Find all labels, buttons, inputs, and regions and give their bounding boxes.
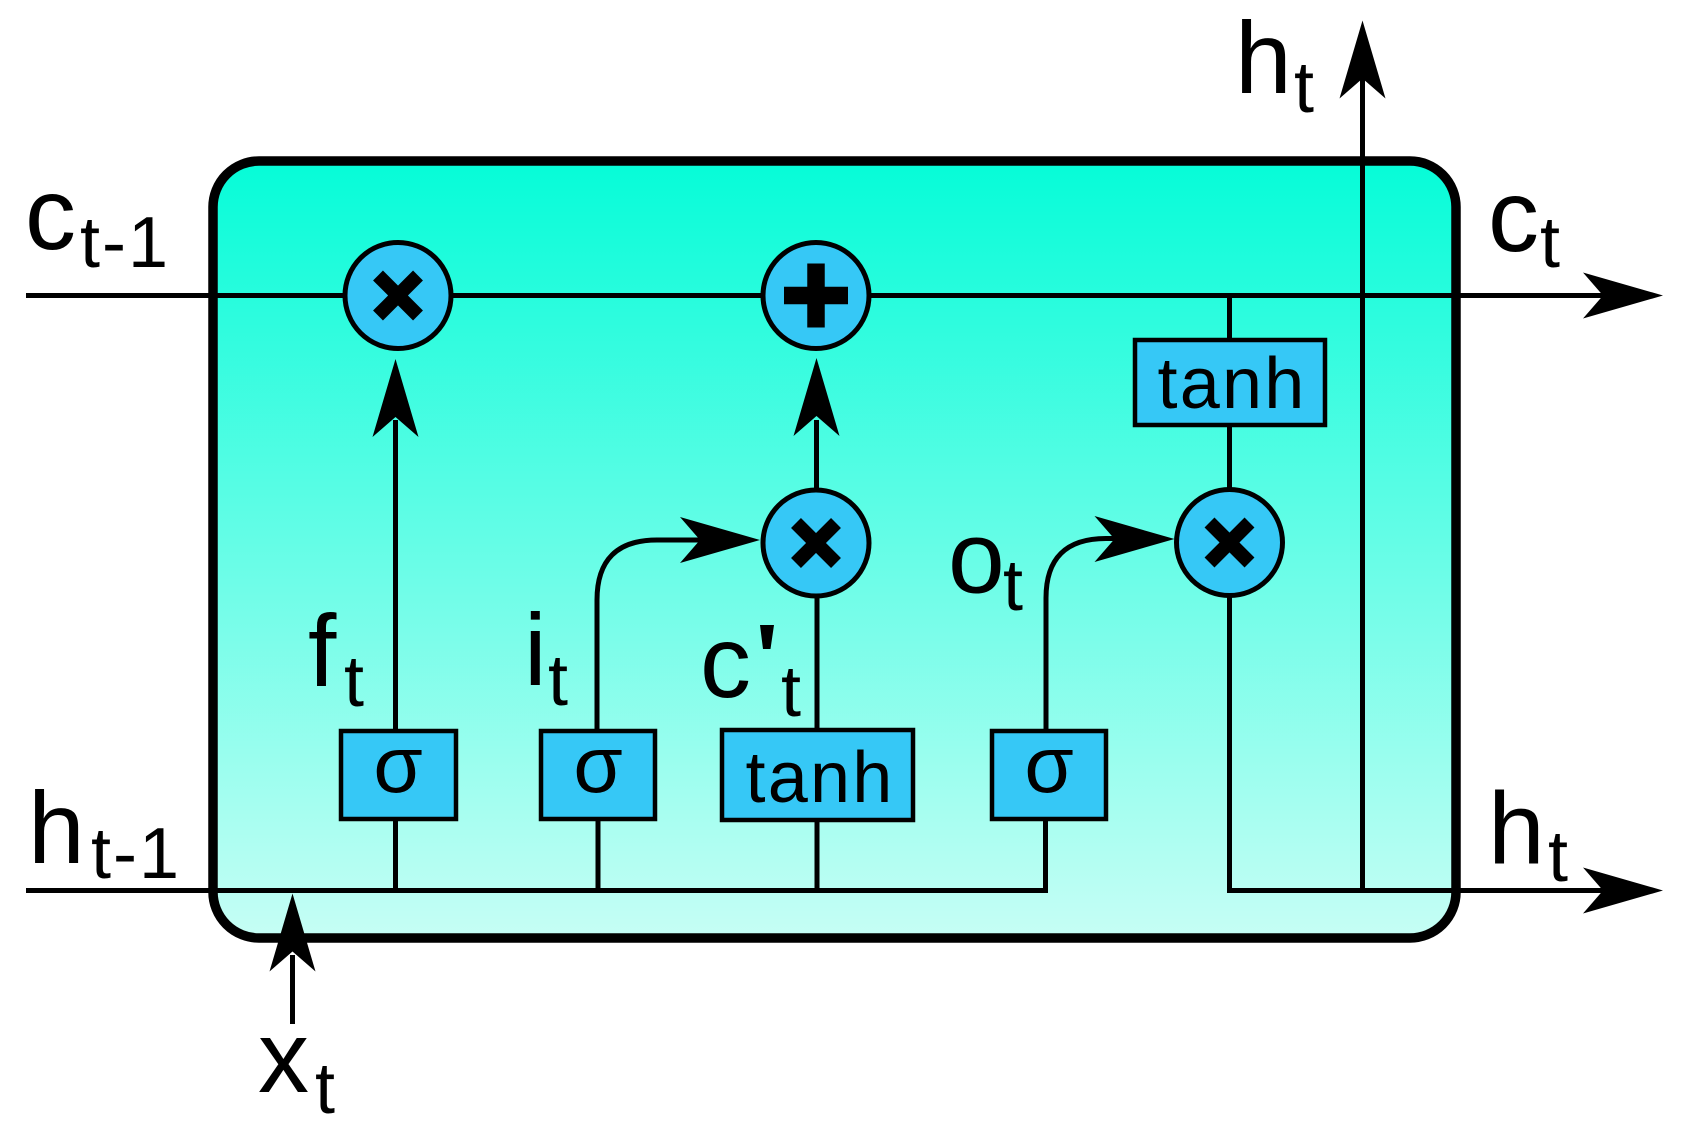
svg-text:c: c — [700, 605, 751, 719]
label o_t — [948, 501, 1023, 627]
operator circle: output gate multiply (x) right — [1177, 490, 1283, 596]
arrowhead c_t output — [1583, 273, 1663, 319]
wire: middle x-circle up to plus circle — [814, 420, 819, 488]
svg-text:i: i — [524, 593, 547, 707]
arrowhead into right x-circle left — [1095, 516, 1175, 562]
arrowhead into middle x-circle left — [680, 517, 760, 563]
svg-text:t: t — [781, 652, 801, 732]
svg-text:t-1: t-1 — [91, 814, 181, 894]
svg-text:h: h — [1488, 772, 1545, 886]
label h_t (top) — [1235, 1, 1314, 128]
wire: output gate o_t curve from sigma3 to right x-circle — [1046, 539, 1120, 732]
label h_t (right) — [1488, 772, 1568, 898]
arrowhead h_t right output — [1583, 868, 1663, 914]
svg-text:t-1: t-1 — [80, 203, 170, 283]
wire: hidden state input rail h (horizontal bottom, left to sigma3 riser) — [26, 818, 1046, 891]
svg-text:o: o — [948, 501, 1005, 615]
wire: h_t branch going up through cell to top — [1360, 75, 1365, 891]
svg-text:tanh: tanh — [1158, 344, 1307, 424]
svg-text:t: t — [1003, 546, 1023, 626]
label c'_t — [700, 605, 801, 732]
svg-text:f: f — [308, 594, 337, 708]
arrowhead into plus circle — [794, 358, 840, 436]
label i_t — [524, 593, 568, 721]
arrowhead into first x-circle — [373, 359, 419, 437]
svg-text:c: c — [25, 157, 76, 271]
svg-text:t: t — [1540, 203, 1560, 283]
wire: top tanh box down to right x-circle — [1227, 425, 1232, 490]
LSTM cell body (rounded rectangle) — [213, 161, 1456, 938]
svg-text:t: t — [315, 1049, 335, 1129]
svg-text:t: t — [548, 641, 568, 721]
operator circle: cell state add (+) — [763, 243, 869, 349]
gate box: sigma 2 (input) — [541, 720, 655, 819]
svg-text:σ: σ — [573, 720, 622, 809]
svg-text:h: h — [1235, 1, 1292, 115]
label f_t — [308, 594, 364, 722]
gate box: tanh (candidate) — [722, 730, 913, 820]
wire: input x_t arrow into cell bottom — [290, 955, 295, 1024]
wire: sigma1 down to h rail — [393, 819, 398, 891]
arrowhead h_t top output — [1340, 21, 1386, 99]
wire: input gate i_t curve from sigma2 to middle x-circle — [597, 540, 705, 731]
label x_t — [258, 1000, 335, 1129]
operator circle: forget gate multiply (x) — [345, 243, 451, 349]
wire: sigma2 down to h rail — [596, 819, 601, 891]
svg-text:h: h — [28, 771, 85, 885]
operator circle: input gate multiply (x) middle — [763, 490, 869, 596]
svg-text:x: x — [258, 1000, 309, 1114]
svg-text:σ: σ — [373, 720, 422, 809]
label h_t-1 — [28, 771, 181, 894]
wire: c line down into top tanh box — [1227, 296, 1232, 341]
wire: candidate c' from tanh box up to middle x-circle — [815, 597, 820, 730]
wire: forget gate line f_t up to first x-circle — [393, 420, 398, 731]
arrowhead x_t into h rail — [270, 894, 316, 972]
wire: output of right x-circle down and right to h_t — [1230, 595, 1616, 891]
gate box: tanh (top right, on cell state) — [1135, 340, 1325, 425]
svg-text:t: t — [1548, 817, 1568, 897]
gate box: sigma 1 (forget) — [341, 720, 456, 819]
wire: cell state line c (horizontal top) — [26, 293, 1615, 298]
svg-text:c: c — [1488, 159, 1539, 273]
svg-text:tanh: tanh — [746, 738, 895, 818]
svg-text:t: t — [344, 642, 364, 722]
label c_t (right) — [1488, 159, 1560, 283]
svg-text:σ: σ — [1024, 720, 1073, 809]
wire: tanh box down to h rail — [815, 820, 820, 891]
gate box: sigma 3 (output) — [992, 720, 1106, 819]
label c_t-1 — [25, 157, 170, 283]
svg-text:t: t — [1294, 48, 1314, 128]
